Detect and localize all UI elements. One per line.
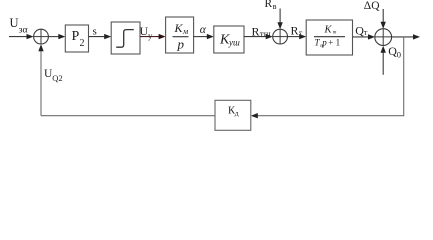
- block P2 controller: [65, 25, 88, 52]
- wire block to summer S3: [353, 34, 376, 39]
- summing junction S2: [273, 29, 288, 44]
- svg-text:2: 2: [80, 38, 85, 49]
- node Rv disturbance label: [265, 0, 277, 11]
- svg-text:Р: Р: [72, 29, 80, 44]
- svg-text:К: К: [324, 24, 333, 35]
- block relay nonlinearity: [111, 22, 140, 54]
- svg-text:т: т: [333, 30, 337, 35]
- wire Km/p to Kush: [194, 34, 214, 39]
- node Q0 disturbance label: [388, 44, 401, 60]
- svg-text:0: 0: [397, 50, 401, 60]
- wire Kush to summer S2: [244, 34, 273, 39]
- node Uza input label: [10, 16, 28, 36]
- wire S1 to P2: [48, 34, 65, 39]
- svg-text:R: R: [291, 23, 299, 37]
- svg-text:p: p: [177, 37, 185, 52]
- block Kd feedback sensor: [215, 100, 251, 130]
- wire input to summer S1: [9, 34, 34, 39]
- svg-text:зα: зα: [19, 25, 28, 36]
- wire S2 to K/(Tp+1): [288, 34, 307, 39]
- svg-text:ΔQ: ΔQ: [364, 0, 380, 12]
- node Uy label: [140, 24, 154, 41]
- summing junction S3: [375, 29, 392, 46]
- svg-text:д: д: [235, 109, 239, 118]
- svg-text:+ 1: + 1: [328, 37, 340, 47]
- wire feedback vertical left into S1: [38, 44, 43, 116]
- svg-text:R: R: [265, 0, 273, 10]
- svg-text:т: т: [364, 28, 368, 37]
- node Rsigma label: [291, 23, 303, 38]
- svg-text:К: К: [174, 21, 184, 35]
- svg-text:α: α: [200, 24, 207, 36]
- wire feedback bottom right segment into Kd: [251, 113, 404, 118]
- block K/(Tp+1) object: [306, 20, 352, 55]
- summing junction S1: [34, 29, 49, 44]
- wire output from S3: [391, 34, 420, 39]
- svg-text:в: в: [273, 2, 277, 11]
- wire dQ vertical into S3: [381, 9, 386, 29]
- wire Rv vertical into S2: [277, 9, 282, 30]
- svg-text:уш: уш: [228, 38, 240, 48]
- wire feedback vertical right: [403, 37, 405, 116]
- block Kush: [214, 26, 244, 53]
- wire feedback bottom left segment: [41, 115, 215, 117]
- svg-text:s: s: [93, 26, 97, 38]
- node Rtsh label: [252, 25, 271, 40]
- wire P2 to relay: [89, 34, 112, 39]
- node Qt label: [355, 23, 368, 37]
- svg-text:Q2: Q2: [52, 73, 62, 83]
- wire Q0 vertical into S3: [381, 46, 386, 75]
- svg-text:м: м: [182, 27, 188, 36]
- wire relay to Km/p: [140, 34, 166, 39]
- node UQ2 feedback label: [44, 68, 63, 83]
- block Km/p servo motor: [166, 17, 194, 53]
- svg-text:U: U: [10, 16, 19, 30]
- svg-text:р: р: [321, 37, 327, 47]
